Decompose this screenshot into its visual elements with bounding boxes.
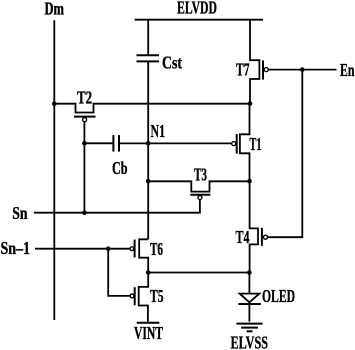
svg-text:T2: T2 xyxy=(77,88,92,108)
wire T2 gate lead down xyxy=(83,122,85,144)
svg-text:Sn–1: Sn–1 xyxy=(1,238,31,258)
transistor T6 gate bubble xyxy=(130,247,134,251)
transistor T7 gate bubble xyxy=(264,68,268,72)
svg-text:T1: T1 xyxy=(250,134,262,154)
transistor T3 gate bubble xyxy=(198,196,202,200)
junction Sn-1 branch xyxy=(106,246,111,251)
svg-text:En: En xyxy=(340,60,355,80)
diode OLED xyxy=(238,294,260,304)
wire Dm vertical data line xyxy=(53,20,55,320)
junction Cb left node xyxy=(82,141,87,146)
wire N1 row right segment to T1 gate xyxy=(120,142,232,144)
transistor T7 source-drain path xyxy=(250,20,259,104)
transistor T2 source-drain path xyxy=(54,104,250,113)
transistor T2 gate bubble xyxy=(83,118,87,122)
junction T7/T1/T2 node xyxy=(248,101,253,106)
wire vertical N1 column from Cst down to T6 xyxy=(147,61,149,239)
transistor T2 gate bar xyxy=(74,116,96,118)
svg-text:Cst: Cst xyxy=(162,53,182,73)
transistor T5 gate bar xyxy=(134,287,136,305)
svg-text:T4: T4 xyxy=(236,227,250,247)
wire left vertical from Cb node down to Sn xyxy=(83,143,85,212)
wire ELVDD top rail xyxy=(135,19,263,21)
svg-text:T7: T7 xyxy=(236,60,250,80)
transistor T4 gate bar xyxy=(261,228,263,246)
transistor T6 source-drain path xyxy=(139,239,148,272)
capacitor Cst xyxy=(137,55,160,61)
transistor T3 gate bar xyxy=(190,194,210,196)
svg-text:ELVDD: ELVDD xyxy=(177,0,217,18)
svg-text:OLED: OLED xyxy=(262,286,295,306)
transistor T1 source-drain path xyxy=(240,104,250,182)
wire OLED anode lead xyxy=(248,273,250,294)
svg-text:T6: T6 xyxy=(150,239,163,259)
svg-text:T5: T5 xyxy=(150,286,164,306)
capacitor Cb xyxy=(113,135,119,152)
junction En branch xyxy=(300,67,305,72)
wire T3 gate lead to Sn xyxy=(34,200,200,213)
wire Sn-1 branch down to T5 gate xyxy=(108,249,130,296)
ground ELVSS symbol xyxy=(236,324,262,332)
svg-text:ELVSS: ELVSS xyxy=(231,333,269,350)
transistor T4 gate bubble xyxy=(264,235,268,239)
transistor T5 gate bubble xyxy=(130,294,134,298)
svg-text:Dm: Dm xyxy=(45,0,65,19)
transistor T4 source-drain path xyxy=(250,181,258,272)
wire T3 row xyxy=(148,181,249,191)
transistor T1 gate bubble xyxy=(232,142,236,146)
wire middle row T6/T5 to T4/OLED junction xyxy=(148,272,249,274)
wire En branch down to T4 gate xyxy=(268,70,303,238)
ground VINT terminal bar xyxy=(137,322,160,324)
wire N1 row left segment xyxy=(84,142,112,144)
junction T4/OLED node xyxy=(247,270,252,275)
junction T3 row right xyxy=(247,179,252,184)
transistor T5 source-drain path xyxy=(139,273,149,322)
wire OLED cathode lead xyxy=(248,305,250,322)
junction node N1 xyxy=(146,141,151,146)
svg-text:VINT: VINT xyxy=(134,323,163,343)
svg-text:T3: T3 xyxy=(194,165,207,185)
junction T3 row left xyxy=(146,179,151,184)
wire En gate line xyxy=(268,69,336,71)
svg-text:Cb: Cb xyxy=(112,158,128,178)
junction Sn branch xyxy=(82,210,87,215)
transistor T1 gate bar xyxy=(236,134,238,154)
wire Sn-1 row xyxy=(35,248,130,250)
junction T6/T5 node xyxy=(146,270,151,275)
wire Cst top lead from ELVDD rail xyxy=(147,20,149,56)
transistor T7 gate bar xyxy=(262,60,264,79)
svg-text:N1: N1 xyxy=(151,121,166,141)
svg-text:Sn: Sn xyxy=(12,203,27,223)
transistor T6 gate bar xyxy=(134,240,136,258)
junction Dm/T2 xyxy=(52,101,57,106)
